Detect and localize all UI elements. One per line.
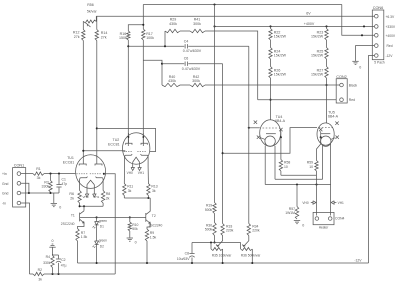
svg-text:15k/2W: 15k/2W [311, 73, 324, 77]
svg-text:15k/2W: 15k/2W [311, 35, 324, 39]
wire TU1 left plate to TU2 left grid [83, 150, 125, 153]
wire pot left end to R12 [82, 22, 84, 30]
svg-text:R56: R56 [87, 3, 94, 7]
svg-text:C6: C6 [184, 57, 189, 61]
svg-text:3k: 3k [128, 189, 132, 193]
svg-text:C4: C4 [184, 39, 189, 43]
resistor R33 220k [221, 224, 224, 236]
heater wire to CON4 pin1 with VH0 arrow [316, 175, 318, 215]
svg-text:6B4-A: 6B4-A [328, 115, 339, 119]
svg-text:R36 500k/var: R36 500k/var [241, 253, 262, 257]
svg-text:T1: T1 [71, 214, 75, 218]
resistor R2 3k [33, 272, 44, 275]
TU4 filament leads [264, 146, 266, 185]
svg-text:0: 0 [59, 206, 61, 210]
connector CON6 [372, 10, 384, 60]
wire R16 down to TU2 left plate / C4 rail [127, 40, 129, 146]
svg-text:R9: R9 [150, 231, 154, 235]
svg-text:0.47u/630V: 0.47u/630V [182, 67, 201, 71]
svg-text:D2: D2 [100, 244, 104, 248]
T1 emitter to R7 [78, 223, 85, 229]
svg-text:R40: R40 [169, 75, 176, 79]
svg-text:3k: 3k [152, 189, 156, 193]
svg-text:CON6: CON6 [373, 6, 384, 10]
svg-text:0: 0 [135, 240, 137, 244]
svg-text:Gnd: Gnd [2, 192, 9, 196]
heater net arrows VH0/VH1 under TU2 [132, 164, 134, 168]
resistor R30 500k [213, 223, 216, 236]
svg-text:green: green [99, 219, 107, 223]
svg-text:ECC81: ECC81 [108, 142, 120, 146]
svg-text:330k: 330k [42, 185, 50, 189]
TU2 right plate branch to C6 rail and R40 [143, 60, 162, 85]
svg-text:430k: 430k [169, 22, 177, 26]
svg-text:5 Pach: 5 Pach [374, 60, 384, 64]
svg-text:VH1: VH1 [338, 201, 344, 205]
svg-text:15k/2W: 15k/2W [274, 54, 287, 58]
svg-text:Heater: Heater [319, 225, 330, 229]
resistor R11 3k (TU2 cathode) [123, 167, 125, 184]
heater bus to CON4 [265, 184, 330, 186]
resistor R40 430k [162, 83, 180, 86]
no-connect pins TU5 [335, 122, 338, 125]
wire R12 to TU1 left plate [82, 41, 84, 159]
svg-text:100k: 100k [146, 36, 154, 40]
C4 vertical to TU4 grid and bias network [248, 46, 250, 223]
resistor R14 27k [96, 16, 98, 29]
wire CON1 pin3 [21, 192, 29, 194]
6V heater rail to CON6 pin1 [96, 15, 374, 17]
resistor R26 15k/2W [269, 67, 272, 79]
svg-text:150k: 150k [119, 36, 127, 40]
svg-text:Red: Red [387, 44, 393, 48]
svg-text:Red: Red [349, 98, 355, 102]
capacitor C6 0.47u/630V [184, 62, 186, 66]
ground above R4/C2 [52, 248, 54, 256]
svg-text:D1: D1 [100, 225, 104, 229]
svg-text:0: 0 [302, 224, 304, 228]
potentiometer R56 5k/var (humdinger) [84, 20, 97, 23]
svg-text:VH1: VH1 [138, 171, 144, 175]
resistor R9 1.5k [145, 229, 148, 241]
svg-text:2k: 2k [70, 196, 74, 200]
resistor R4 330k [52, 254, 54, 256]
transistor T1 2SC2240 [83, 206, 85, 211]
resistor R13 3k (TU2 cathode) [147, 167, 149, 184]
resistor R17 100k [142, 29, 145, 40]
resistor R41 300k [190, 29, 205, 32]
svg-text:0: 0 [52, 239, 54, 243]
svg-text:50k: 50k [132, 227, 138, 231]
resistor R1 3k [33, 172, 44, 175]
R29/R41 branch from left plate rail [164, 31, 166, 46]
resistor R29 430k [165, 29, 180, 32]
feedback line from R2 to TU1 right grid [44, 273, 115, 275]
svg-text:15k/2W: 15k/2W [274, 73, 287, 77]
svg-text:TU1: TU1 [67, 156, 74, 160]
resistor R42 300k [190, 83, 205, 86]
wire R17 down to TU2 right plate [142, 40, 144, 146]
wire B+ rail to CON6 pin3 (+400V) [342, 5, 374, 36]
resistor R10 50k [129, 216, 131, 218]
ground under CON6 pin4 [352, 60, 358, 62]
heater TU1 [87, 180, 94, 184]
wire R1 to TU1 grid [44, 173, 75, 175]
svg-text:-12V: -12V [354, 259, 362, 263]
resistor R25 15k/2W [325, 48, 328, 60]
heater bus TU5 to TU4 [275, 178, 323, 180]
ground under R10 [129, 231, 131, 238]
capacitor C8 10u/63V [191, 243, 193, 254]
svg-text:27k: 27k [74, 35, 80, 39]
output tube TU5 6B4-A [317, 123, 334, 145]
svg-text:R41: R41 [194, 17, 201, 21]
svg-text:1W1M: 1W1M [285, 211, 295, 215]
C6 vertical to TU5 grid wire [222, 64, 224, 224]
heater wire to CON4 pin2 with VH1 arrow [330, 185, 332, 216]
resistor R24 15k/2W [269, 48, 272, 60]
resistor R59 10 (TU5 filament balance) [320, 136, 322, 138]
resistor R6 2k (TU1 cathode) [78, 191, 81, 204]
connector CON4 heater [313, 212, 334, 224]
svg-text:220k: 220k [226, 229, 234, 233]
svg-text:10: 10 [284, 165, 288, 169]
wire pot right end up to 6V rail [95, 16, 97, 21]
wire R26 bottom to CON2 pin2 and TU4 plate [270, 78, 272, 120]
svg-text:1.5k: 1.5k [150, 235, 157, 239]
svg-text:330k: 330k [43, 261, 51, 265]
svg-text:15k/2W: 15k/2W [311, 54, 324, 58]
svg-text:R4: R4 [46, 255, 50, 259]
svg-text:47µ: 47µ [61, 264, 67, 268]
svg-text:green: green [99, 239, 107, 243]
trimmer R36 500k/var [241, 248, 253, 251]
wire B+ vertical x214.5 [214, 5, 216, 203]
capacitor C2 47u [58, 255, 60, 259]
-12V rail [78, 262, 369, 264]
svg-text:2SC2240: 2SC2240 [61, 222, 75, 226]
resistor R58 10 (TU4 filament balance) [280, 136, 282, 138]
svg-text:VH0: VH0 [82, 195, 88, 199]
grid feedback wire TU1 right grid [103, 173, 105, 175]
wire CON1 pin1 to R1 [21, 173, 33, 175]
resistor R34 220k [247, 224, 250, 236]
resistor R57 1W/1M to ground [296, 185, 298, 207]
heater TU2 [133, 157, 140, 162]
svg-text:0: 0 [359, 65, 361, 69]
svg-text:3k: 3k [37, 176, 41, 180]
svg-text:+400V: +400V [304, 22, 315, 26]
triode TU1 ECC81 [76, 155, 106, 189]
TU5 filament leads [322, 145, 324, 180]
connector CON2 [336, 79, 347, 103]
svg-text:C1: C1 [62, 178, 66, 182]
svg-text:220k: 220k [252, 229, 260, 233]
svg-text:2SC2240: 2SC2240 [149, 224, 163, 228]
ground symbol input [53, 193, 55, 203]
svg-text:CON1: CON1 [14, 163, 25, 167]
svg-text:500k: 500k [205, 228, 213, 232]
svg-text:C2: C2 [61, 258, 65, 262]
svg-text:Gnd: Gnd [2, 182, 9, 186]
TU1 cathode bus [79, 203, 81, 206]
heater net arrows VH0/VH1 under TU1 [86, 187, 88, 195]
svg-text:3k: 3k [38, 278, 42, 282]
svg-text:VH0: VH0 [302, 201, 308, 205]
B+ rail from R17 top [142, 5, 144, 30]
svg-text:47p: 47p [62, 182, 68, 186]
svg-text:500k: 500k [205, 208, 213, 212]
svg-text:-In: -In [2, 202, 6, 206]
svg-text:R42: R42 [193, 75, 200, 79]
svg-text:1.5k: 1.5k [81, 235, 88, 239]
triode TU2 ECC81 [123, 133, 150, 164]
svg-text:C8: C8 [185, 251, 189, 255]
resistor R23 15k/2W [325, 29, 328, 41]
wire TU1 right plate to TU2 right grid [97, 128, 156, 151]
grid wire TU4 [249, 127, 260, 129]
transistor T2 2SC2240 [145, 213, 147, 222]
svg-text:6V: 6V [306, 12, 311, 16]
svg-text:ECC81: ECC81 [63, 160, 75, 164]
capacitor C1 47p [58, 174, 60, 185]
svg-text:27k: 27k [101, 35, 107, 39]
output tube TU4 6B4-A [260, 120, 281, 147]
filament balance bus [281, 174, 317, 176]
+400V rail [215, 25, 375, 27]
svg-text:10: 10 [309, 165, 313, 169]
ground bus of input network [29, 192, 59, 194]
svg-text:10u/63V: 10u/63V [177, 257, 190, 261]
wire CON1 pin4 (-In) down to feedback line [21, 203, 30, 274]
svg-text:430k: 430k [168, 79, 176, 83]
connector CON1 [13, 168, 26, 207]
resistor R3 330k [50, 174, 52, 181]
svg-text:CON4: CON4 [335, 216, 345, 220]
svg-text:300k: 300k [192, 79, 200, 83]
resistor R19 500k [213, 203, 216, 214]
grid wire TU5 [223, 128, 317, 154]
svg-text:5k/var: 5k/var [87, 10, 98, 14]
wire CON6 pin4 to ground [356, 46, 375, 61]
svg-text:T2: T2 [152, 214, 156, 218]
trimmer R35 100k/var [211, 248, 223, 251]
wire R41 to TU4 plate node (Schade feedback) [205, 31, 258, 100]
resistor R12 27k [82, 30, 85, 41]
LED D1 green [96, 216, 98, 218]
capacitor C4 0.47u/630V [184, 44, 186, 48]
wire CON6 pin5 -12V down right side [369, 56, 375, 264]
resistor R7 1.5k [76, 229, 79, 242]
svg-text:R2: R2 [38, 268, 42, 272]
LED D2 green [95, 241, 99, 244]
svg-text:R29: R29 [170, 17, 177, 21]
svg-text:+400V: +400V [386, 34, 396, 38]
wire R14 to TU1 right plate, junction to TU2 right grid [96, 41, 98, 159]
resistor R16 150k [128, 25, 143, 31]
no-connect pins TU4 [254, 121, 257, 124]
svg-text:0.47u/630V: 0.47u/630V [183, 49, 202, 53]
svg-text:CON2: CON2 [336, 75, 347, 79]
T2 emitter to R9 [147, 223, 150, 229]
C4 coupling rail (TU2 left plate to TU4 grid) [128, 45, 184, 47]
svg-text:R1: R1 [36, 167, 41, 171]
TU2 cathode bus to T2 collector [123, 196, 125, 199]
bias wire C8 to R30 and pots [192, 242, 241, 244]
svg-text:-12V: -12V [386, 54, 394, 58]
svg-text:+In: +In [2, 172, 7, 176]
svg-text:300k: 300k [193, 22, 201, 26]
resistor R8 2k (TU1 cathode) [101, 191, 104, 204]
C6 coupling rail (to TU5 grid) [162, 63, 184, 65]
svg-text:VH0: VH0 [127, 171, 133, 175]
svg-text:Black: Black [349, 84, 358, 88]
svg-text:R35 100k/var: R35 100k/var [212, 253, 233, 257]
svg-text:+6.3V: +6.3V [386, 15, 396, 19]
svg-text:VH1: VH1 [93, 195, 99, 199]
svg-text:+330V: +330V [386, 25, 396, 29]
resistor R22 15k/2W [269, 29, 272, 41]
svg-text:R7: R7 [81, 231, 85, 235]
svg-text:15k/2W: 15k/2W [274, 35, 287, 39]
svg-text:6B4-A: 6B4-A [275, 119, 286, 123]
wire R42 to TU5 plate node / CON2 pin1 [205, 84, 340, 86]
T1 base wire to LED reference [80, 216, 97, 218]
resistor R27 15k/2W [325, 67, 328, 79]
svg-text:2k: 2k [106, 196, 110, 200]
wire R27 bottom to CON2 pin1 and TU5 plate [326, 78, 328, 123]
